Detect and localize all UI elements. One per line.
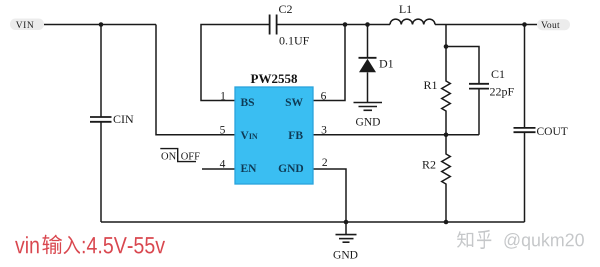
node Vout output tag <box>537 19 570 31</box>
wire EN pin 4 <box>202 168 235 170</box>
wire BS pin 1 riser <box>201 25 269 101</box>
wire bottom ground rail <box>101 221 525 223</box>
wire R1 top lead <box>445 25 447 47</box>
label red text vin <box>15 236 39 253</box>
svg-text:Vout: Vout <box>541 21 560 31</box>
svg-text:FB: FB <box>288 130 303 142</box>
wire L1 to Vout <box>435 24 537 26</box>
svg-text:R1: R1 <box>424 78 438 92</box>
label red text 4.5V-55v <box>83 237 165 253</box>
wire GND pin 2 drop <box>313 169 346 222</box>
wire C1 top branch <box>446 47 479 84</box>
capacitor CIN <box>90 117 112 122</box>
svg-text:1: 1 <box>220 90 226 102</box>
svg-text:VIN: VIN <box>241 130 258 142</box>
node junction SW riser <box>343 22 348 27</box>
node junction R2 bottom <box>444 220 449 225</box>
wire C1 bottom lead <box>478 89 480 135</box>
ground main symbol <box>336 235 357 243</box>
svg-text:GND: GND <box>356 117 381 129</box>
svg-text:PW2558: PW2558 <box>251 71 298 86</box>
svg-text:CIN: CIN <box>113 112 134 126</box>
wire COUT bottom lead <box>524 132 526 222</box>
label watermark CJK hu <box>477 230 491 249</box>
svg-text:GND: GND <box>278 163 304 175</box>
svg-text:C2: C2 <box>278 2 292 16</box>
wire COUT top lead <box>524 25 526 128</box>
label zhihu watermark <box>457 230 584 250</box>
svg-text:6: 6 <box>321 90 327 102</box>
node VIN input tag <box>10 19 44 32</box>
resistor R1 <box>442 47 451 135</box>
node junction R1/C1 top <box>444 44 449 49</box>
label red text CJK ru <box>63 236 80 254</box>
svg-text:OFF: OFF <box>181 152 200 163</box>
inductor L1 <box>390 19 435 24</box>
wire VIN drop to pin 5 <box>156 25 235 135</box>
diode D1 <box>359 58 377 73</box>
capacitor COUT <box>514 128 536 132</box>
wire CIN top lead <box>100 25 102 117</box>
svg-text:VIN: VIN <box>16 21 34 31</box>
svg-text:BS: BS <box>241 97 255 109</box>
ground below D1 <box>354 103 383 111</box>
svg-text:0.1UF: 0.1UF <box>279 34 310 48</box>
node junction VIN/CIN <box>99 22 104 27</box>
svg-text:ON: ON <box>161 152 177 163</box>
svg-text:COUT: COUT <box>537 126 568 138</box>
resistor R2 <box>442 135 451 222</box>
wire FB pin 3 to divider <box>313 134 479 136</box>
svg-text:SW: SW <box>285 97 303 109</box>
svg-text:D1: D1 <box>379 57 394 71</box>
svg-text:R2: R2 <box>422 158 436 172</box>
label watermark CJK zhi <box>457 231 473 247</box>
wire D1 cathode lead <box>367 25 369 58</box>
wire CIN bottom lead <box>100 122 102 222</box>
svg-text:22pF: 22pF <box>490 85 515 99</box>
switch ON/OFF waveform <box>160 149 196 162</box>
svg-text:EN: EN <box>241 163 258 175</box>
wire VIN rail to pin5 drop <box>44 24 156 26</box>
wire ground stem <box>345 222 347 234</box>
wire SW pin 6 riser <box>313 25 345 101</box>
capacitor C1 <box>469 84 489 89</box>
svg-text:4: 4 <box>220 159 226 171</box>
svg-text:5: 5 <box>220 125 226 137</box>
node junction GND rail <box>344 220 349 225</box>
op-amp U1 PW2558 body <box>235 87 313 184</box>
capacitor C2 <box>270 15 277 35</box>
label watermark @qukm20 <box>504 233 583 250</box>
svg-text:2: 2 <box>322 157 328 169</box>
wire C2 right to SW node <box>277 24 390 26</box>
svg-text:GND: GND <box>333 250 358 262</box>
svg-text:C1: C1 <box>491 67 505 81</box>
wire D1 anode lead <box>367 72 369 102</box>
label red text CJK shu <box>42 235 62 255</box>
node junction FB divider <box>444 133 449 138</box>
node junction Vout/COUT <box>522 22 527 27</box>
svg-text:L1: L1 <box>399 2 412 16</box>
label vin input range annotation <box>15 235 165 255</box>
svg-text:3: 3 <box>321 125 327 137</box>
node junction D1 <box>365 22 370 27</box>
